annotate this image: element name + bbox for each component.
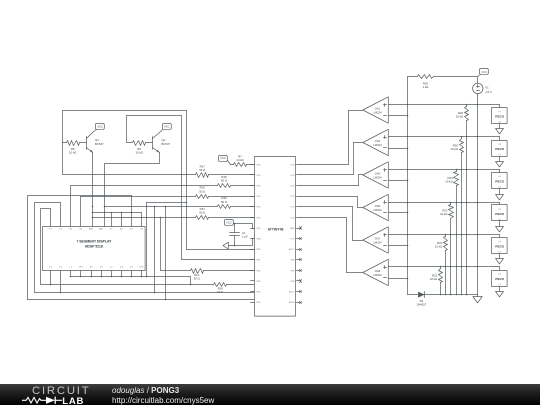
svg-text:B1: B1 [80,229,83,231]
svg-text:D4: D4 [120,267,123,269]
svg-text:PD0: PD0 [257,164,262,166]
svg-text:PC3: PC3 [290,164,295,166]
svg-text:PD2: PD2 [257,186,262,188]
svg-text:PD4: PD4 [257,207,262,209]
svg-text:VCC: VCC [164,124,170,128]
svg-text:PC7: PC7 [290,239,295,241]
svg-text:OA7: OA7 [375,236,381,240]
svg-text:AN1: AN1 [89,228,94,231]
svg-text:D1: D1 [59,267,62,269]
svg-text:G1: G1 [59,229,63,231]
svg-text:(+): (+) [499,143,502,145]
svg-text:LM324: LM324 [373,208,382,212]
svg-text:50 Ω: 50 Ω [194,277,200,281]
svg-text:(−): (−) [499,186,502,188]
svg-text:PIEZO: PIEZO [495,147,505,151]
svg-text:(−): (−) [499,251,502,253]
svg-text:C2: C2 [110,267,113,269]
svg-text:10 kΩ: 10 kΩ [136,151,143,155]
svg-text:1N4007: 1N4007 [416,303,426,307]
svg-text:LAB: LAB [62,396,84,405]
svg-text:PC2: PC2 [290,196,295,198]
svg-text:E2: E2 [90,267,93,269]
svg-text:DP2: DP2 [140,267,145,269]
svg-text:ATTINY48: ATTINY48 [268,228,284,232]
svg-text:F1: F1 [49,229,52,231]
svg-text:ADC6: ADC6 [289,301,295,304]
svg-text:DP1: DP1 [79,267,84,269]
svg-text:OA6: OA6 [375,204,381,208]
svg-text:VCC: VCC [257,228,262,230]
svg-text:10 kΩ: 10 kΩ [69,151,76,155]
svg-text:PB2: PB2 [257,270,262,272]
svg-text:PB3: PB3 [257,281,262,283]
svg-text:(−): (−) [499,284,502,286]
svg-text:(+): (+) [499,111,502,113]
svg-text:GND: GND [290,228,295,230]
svg-text:PIEZO: PIEZO [495,115,505,119]
svg-text:10 kΩ: 10 kΩ [445,180,452,184]
svg-text:PB0: PB0 [257,249,262,251]
svg-text:A2: A2 [120,228,123,231]
svg-text:PD3: PD3 [257,196,262,198]
svg-text:E1: E1 [49,267,52,269]
svg-text:F2: F2 [110,229,113,231]
svg-text:BC547: BC547 [162,142,171,146]
svg-text:50 Ω: 50 Ω [199,189,205,193]
svg-text:AVCC: AVCC [289,248,295,251]
svg-text:LM324: LM324 [373,143,382,147]
svg-text:AN2: AN2 [99,228,104,231]
svg-text:LM324: LM324 [373,175,382,179]
svg-text:PD1: PD1 [257,175,262,177]
svg-text:PIEZO: PIEZO [495,245,505,249]
svg-text:CO: CO [130,267,133,269]
svg-text:PD5: PD5 [257,217,262,219]
svg-text:BC547: BC547 [95,142,104,146]
svg-text:LM324: LM324 [373,110,382,114]
svg-text:(+): (+) [499,208,502,210]
svg-text:OA2: OA2 [375,171,381,175]
svg-text:PB4: PB4 [257,292,262,294]
svg-text:B2: B2 [130,229,133,231]
svg-text:VCC: VCC [98,124,104,128]
svg-text:VCC: VCC [220,156,226,160]
svg-text:(+): (+) [499,273,502,275]
svg-text:OA4: OA4 [375,139,381,143]
svg-text:1 kΩ: 1 kΩ [422,85,428,89]
svg-text:(−): (−) [499,219,502,221]
svg-text:OA8: OA8 [375,269,381,273]
svg-text:7 SEGMENT DISPLAY: 7 SEGMENT DISPLAY [76,239,112,243]
svg-text:PB6: PB6 [291,281,296,283]
svg-text:PIEZO: PIEZO [495,180,505,184]
svg-text:(+): (+) [499,176,502,178]
svg-text:LM324: LM324 [373,240,382,244]
svg-text:10 kΩ: 10 kΩ [435,245,442,249]
svg-text:PIEZO: PIEZO [495,212,505,216]
svg-text:(−): (−) [499,154,502,156]
svg-text:50 Ω: 50 Ω [217,290,223,294]
svg-text:VCC: VCC [226,220,232,224]
svg-text:VCC: VCC [481,70,487,74]
svg-text:HDSP 5218: HDSP 5218 [85,245,103,249]
svg-text:PIEZO: PIEZO [495,277,505,281]
svg-text:10 kΩ: 10 kΩ [440,212,447,216]
svg-text:G2: G2 [140,229,144,231]
svg-text:PC5: PC5 [290,186,295,188]
svg-text:50 Ω: 50 Ω [199,211,205,215]
svg-text:D2: D2 [100,267,103,269]
svg-text:10 kΩ: 10 kΩ [451,147,458,151]
svg-text:PC4: PC4 [290,175,295,177]
svg-text:(−): (−) [499,121,502,123]
svg-text:LM324: LM324 [373,273,382,277]
svg-text:OA1: OA1 [375,106,381,110]
svg-text:A1: A1 [70,228,73,231]
svg-text:(+): (+) [499,241,502,243]
svg-text:50 Ω: 50 Ω [221,200,227,204]
svg-text:1 µF: 1 µF [242,235,248,239]
svg-text:10 kΩ: 10 kΩ [236,158,243,162]
svg-text:10 kΩ: 10 kΩ [456,115,463,119]
svg-text:4.0 V: 4.0 V [485,90,492,94]
svg-text:10 kΩ: 10 kΩ [430,277,437,281]
svg-text:50 Ω: 50 Ω [199,168,205,172]
svg-text:PB5: PB5 [291,260,296,262]
svg-text:PC1: PC1 [290,207,295,209]
svg-text:C1: C1 [70,267,73,269]
svg-text:ADC7: ADC7 [289,291,295,294]
svg-text:50 Ω: 50 Ω [221,179,227,183]
svg-text:GND: GND [257,239,262,241]
svg-text:PC0: PC0 [290,217,295,219]
svg-text:PB5: PB5 [257,302,262,304]
svg-text:PB7: PB7 [291,270,296,272]
svg-text:PB1: PB1 [257,260,262,262]
